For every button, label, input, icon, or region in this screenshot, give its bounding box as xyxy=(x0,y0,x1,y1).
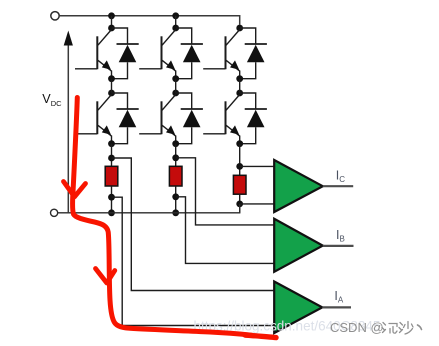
node dot: shunt B bottom tap xyxy=(172,193,179,200)
op-amp U2 (Ib sense) xyxy=(274,219,323,272)
annotation: red arrowhead 1 xyxy=(64,182,86,197)
svg-text:CSDN @: CSDN @ xyxy=(330,320,384,335)
node dot: emitter Q5 xyxy=(236,75,243,82)
node dot: shunt A top tap xyxy=(108,155,115,162)
wire: shunt A bottom tap to amp U3 - input xyxy=(112,197,275,325)
diode D1 (freewheel, leg A hi) xyxy=(112,28,139,79)
watermark: username CJK glyphs (hand-drawn) xyxy=(382,322,422,335)
wire: shunt A bottom to rail xyxy=(111,186,113,213)
node dot: collector Q1 (leg A hi) xyxy=(108,25,115,32)
node dot: shunt C top tap xyxy=(236,163,243,170)
wire: emitter A to shunt xyxy=(111,144,113,167)
wire: shunt A top tap to amp U3 + input xyxy=(112,158,275,291)
transistor Q6 (IGBT leg C lo) xyxy=(203,95,240,144)
wire: leg C midpoint link xyxy=(239,79,241,93)
wire: Ia output xyxy=(322,306,351,308)
arrow: Vdc reference xyxy=(64,31,73,213)
wire: shunt C top tap to amp U1 + input xyxy=(240,165,275,167)
terminal: DC- input circle xyxy=(51,209,58,216)
wire: Ic output xyxy=(323,185,353,187)
wire: leg A midpoint link xyxy=(111,79,113,93)
diode D3 (freewheel, leg B hi) xyxy=(176,28,203,79)
wire: Ib output xyxy=(323,245,354,247)
annotation: red arrowhead 2 xyxy=(96,269,115,284)
annotation: red end segment xyxy=(245,335,276,338)
terminal: DC+ input circle xyxy=(51,12,59,20)
wire: rail stub leg B xyxy=(175,16,177,28)
node dot: collector Q4 (leg B lo) xyxy=(172,90,179,97)
wire: bottom DC rail xyxy=(58,204,240,213)
annotation: red current path stroke xyxy=(73,98,252,336)
node dot: collector Q6 (leg C lo) xyxy=(236,90,243,97)
diode D2 (freewheel, leg A lo) xyxy=(112,93,139,144)
node dot: bottom rail / leg B xyxy=(172,209,179,216)
transistor Q2 (IGBT leg A lo) xyxy=(75,95,112,144)
op-amp U1 (Ic sense) xyxy=(274,160,323,212)
transistor Q5 (IGBT leg C hi) xyxy=(203,30,240,79)
node dot: collector Q3 (leg B hi) xyxy=(172,25,179,32)
wire: emitter C to shunt xyxy=(239,144,241,176)
transistor Q1 (IGBT leg A hi) xyxy=(75,30,112,79)
resistor: shunt RB xyxy=(169,166,182,186)
diode D5 (freewheel, leg C hi) xyxy=(240,28,267,79)
node dot: collector Q2 (leg A lo) xyxy=(108,90,115,97)
transistor Q4 (IGBT leg B lo) xyxy=(139,95,176,144)
wire: shunt B top tap to amp U2 + input xyxy=(176,158,274,225)
node dot: shunt C bottom tap xyxy=(236,201,243,208)
wire: shunt C bottom to rail xyxy=(239,194,241,213)
wire: shunt B bottom to rail xyxy=(175,186,177,213)
wire: shunt C bottom tap to amp U1 - input xyxy=(240,203,275,205)
node dot: top rail / leg B xyxy=(172,12,179,19)
node dot: collector Q5 (leg C hi) xyxy=(236,25,243,32)
wire: shunt B bottom tap to amp U2 - input xyxy=(176,197,274,264)
transistor Q3 (IGBT leg B hi) xyxy=(139,30,176,79)
node dot: shunt B top tap xyxy=(172,154,179,161)
wire: leg B midpoint link xyxy=(175,79,177,93)
wire: top DC rail xyxy=(59,16,239,25)
node dot: emitter Q4 xyxy=(172,140,179,147)
node dot: emitter Q2 xyxy=(108,140,115,147)
node dot: bottom rail / leg A xyxy=(108,209,115,216)
node dot: emitter Q6 xyxy=(236,140,243,147)
diode D6 (freewheel, leg C lo) xyxy=(240,93,267,144)
resistor: shunt RA xyxy=(105,166,118,186)
diode D4 (freewheel, leg B lo) xyxy=(176,93,203,144)
node dot: shunt A bottom tap xyxy=(108,194,115,201)
op-amp U3 (Ia sense) xyxy=(274,282,322,334)
wire: emitter B to shunt xyxy=(175,144,177,167)
node dot: top rail / leg A xyxy=(108,12,115,19)
wire: rail stub leg A xyxy=(111,16,113,28)
node dot: emitter Q1 xyxy=(108,75,115,82)
node dot: emitter Q3 xyxy=(172,75,179,82)
resistor: shunt RC xyxy=(233,175,246,194)
